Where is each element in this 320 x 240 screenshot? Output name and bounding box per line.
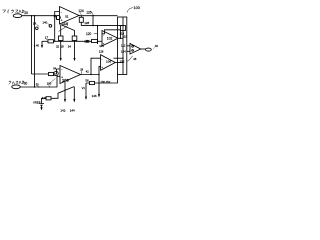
- wire feedback to A1 minus: [55, 12, 60, 42]
- svg-text:102: 102: [107, 36, 113, 40]
- svg-text:124: 124: [78, 9, 84, 13]
- svg-text:48: 48: [133, 57, 137, 61]
- terminal minus input oval: [13, 14, 22, 18]
- svg-text:30: 30: [24, 81, 28, 85]
- wire second horizontal y25: [81, 25, 123, 27]
- svg-text:-: -: [101, 57, 102, 61]
- svg-text:34: 34: [68, 44, 72, 48]
- resistor R154: [49, 72, 54, 75]
- wire vertical tap x34.5: [34, 16, 36, 87]
- wire x99 down arrow: [98, 83, 100, 95]
- wire x91 up to U4 minus: [91, 58, 101, 74]
- wire to diagonal: [51, 87, 74, 99]
- svg-text:118: 118: [99, 50, 104, 54]
- svg-text:14: 14: [33, 22, 37, 26]
- arrows below U3: [64, 82, 66, 100]
- battery symbol: [39, 104, 44, 106]
- wire to A3 plus: [98, 40, 103, 42]
- wire feedback over A3: [102, 30, 121, 39]
- svg-text:148: 148: [42, 96, 47, 100]
- resistor R150: [90, 81, 95, 84]
- svg-text:02: 02: [65, 14, 69, 18]
- op-amp U4 lower mid: [101, 55, 116, 71]
- wire x86 down arrow: [85, 83, 87, 97]
- wire U4 plus from x99: [99, 66, 101, 74]
- svg-text:120: 120: [86, 32, 92, 36]
- terminal plus input oval: [12, 85, 21, 89]
- op-amp U3 bottom: [60, 66, 81, 84]
- svg-text:128: 128: [84, 21, 89, 25]
- wire A3 output into bus: [118, 37, 123, 39]
- op-amp U1: [60, 7, 80, 25]
- svg-text:122: 122: [84, 39, 90, 43]
- svg-text:32: 32: [56, 44, 60, 48]
- svg-text:116: 116: [123, 35, 128, 39]
- bias chain 2 below U1: [61, 25, 75, 37]
- junction A1 plus drop: [54, 41, 55, 42]
- bus inside box: [122, 17, 124, 75]
- svg-text:146: 146: [92, 94, 97, 98]
- wire jumper x89.5: [92, 16, 94, 26]
- wire x99 down: [98, 75, 100, 84]
- wire minus network to A2 minus: [32, 73, 49, 75]
- wire vertical x97.5: [97, 26, 99, 44]
- svg-text:126: 126: [86, 11, 92, 15]
- wire feedback A4: [114, 57, 124, 59]
- svg-text:20: 20: [24, 11, 28, 15]
- wire A1 output: [79, 15, 118, 17]
- svg-text:100: 100: [47, 81, 52, 85]
- resistor R118a: [48, 40, 54, 43]
- resistor R148: [46, 97, 51, 100]
- wire plus input to A2 plus: [20, 76, 60, 87]
- wire feedback line y42: [42, 40, 48, 42]
- input circle U1: [56, 15, 60, 19]
- junction circle node: [86, 40, 88, 42]
- svg-text:56: 56: [85, 78, 89, 82]
- arc leader U5: [127, 56, 133, 62]
- input circle U3: [54, 71, 58, 75]
- svg-text:108: 108: [62, 77, 69, 82]
- resistor R124 vertical: [80, 16, 82, 26]
- svg-text:152: 152: [106, 80, 111, 84]
- wire left end down arrow: [41, 41, 43, 45]
- svg-text:144: 144: [70, 108, 75, 112]
- stubs box to U5: [127, 46, 130, 52]
- wire minus input to A1: [22, 16, 60, 20]
- wire U4 output into bus: [115, 62, 123, 64]
- op-amp U2 mid: [102, 31, 118, 47]
- resistor R122: [92, 39, 98, 42]
- wire U5 output: [141, 48, 146, 50]
- resistor Rbus: [121, 26, 126, 31]
- svg-text:+: +: [101, 65, 103, 69]
- plus input label (katakana simulated): [9, 81, 24, 85]
- svg-text:112: 112: [121, 43, 126, 47]
- node minus-input label (katakana simulated): [3, 10, 25, 14]
- svg-text:-: -: [61, 68, 62, 72]
- svg-text:40: 40: [36, 44, 40, 48]
- svg-text:106: 106: [106, 59, 111, 63]
- terminal output oval: [146, 48, 152, 51]
- box resistor network: [118, 17, 127, 75]
- svg-text:18: 18: [61, 44, 65, 48]
- op-amp U5 output: [130, 44, 141, 55]
- wire VREF up and right: [42, 98, 47, 103]
- svg-text:100: 100: [134, 6, 140, 10]
- svg-text:VREF: VREF: [33, 101, 41, 105]
- junction dots on input wire: [31, 15, 50, 88]
- svg-text:17: 17: [45, 35, 49, 39]
- wire vertical tap x31.5: [31, 16, 33, 74]
- svg-text:104: 104: [99, 44, 104, 48]
- svg-text:134: 134: [121, 50, 126, 54]
- wire U3 output: [81, 74, 100, 76]
- svg-text:142: 142: [60, 108, 65, 112]
- svg-text:V1: V1: [82, 86, 86, 90]
- svg-text:140: 140: [42, 21, 47, 25]
- bias chain 1 below U1: [60, 25, 62, 36]
- svg-text:40: 40: [155, 44, 159, 48]
- svg-text:-: -: [61, 10, 62, 14]
- wire y83 with resistor: [86, 75, 118, 84]
